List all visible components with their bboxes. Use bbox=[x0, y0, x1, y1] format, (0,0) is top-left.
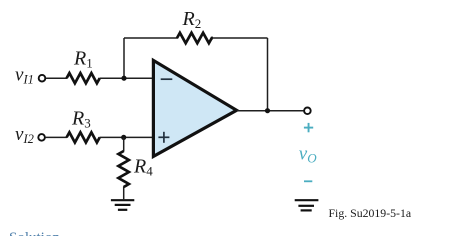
wire feedback left vertical (node A up to R2) bbox=[123, 38, 125, 78]
op-amp U1 bbox=[153, 60, 236, 156]
svg-text:Fig. Su2019-5-1a: Fig. Su2019-5-1a bbox=[329, 206, 412, 220]
wire vI2 to R3 bbox=[45, 136, 67, 138]
ground (below R4) bbox=[111, 200, 134, 210]
wire R4 to ground bbox=[123, 187, 125, 200]
resistor R2 bbox=[177, 33, 213, 43]
op-amp inverting pin label (minus) bbox=[161, 78, 173, 80]
wire R1 to inverting input bbox=[100, 77, 153, 79]
label plus polarity (teal) bbox=[304, 123, 313, 132]
wire R3 to noninverting input bbox=[100, 136, 153, 138]
wire op-amp output bbox=[237, 110, 304, 112]
resistor R3 bbox=[67, 132, 100, 142]
wire node B down to R4 bbox=[123, 137, 125, 151]
node A junction dot bbox=[121, 76, 126, 81]
op-amp noninverting pin label (plus) bbox=[158, 132, 169, 143]
node output junction dot bbox=[265, 108, 270, 113]
node B junction dot bbox=[121, 135, 126, 140]
resistor R4 bbox=[118, 151, 128, 187]
terminal vI1 (open circle) bbox=[39, 75, 46, 82]
wire top right lead from R2 bbox=[212, 37, 268, 39]
label minus polarity (teal) bbox=[304, 180, 312, 182]
ground (output reference) bbox=[295, 200, 319, 210]
terminal vO (open circle) bbox=[304, 108, 311, 115]
wire feedback right vertical down to output node bbox=[267, 38, 269, 111]
wire vI1 to R1 bbox=[46, 77, 67, 79]
wire top left lead to R2 bbox=[124, 37, 178, 39]
svg-text:Solution: Solution bbox=[9, 230, 60, 236]
resistor R1 bbox=[67, 73, 100, 83]
terminal vI2 (open circle) bbox=[38, 134, 45, 141]
